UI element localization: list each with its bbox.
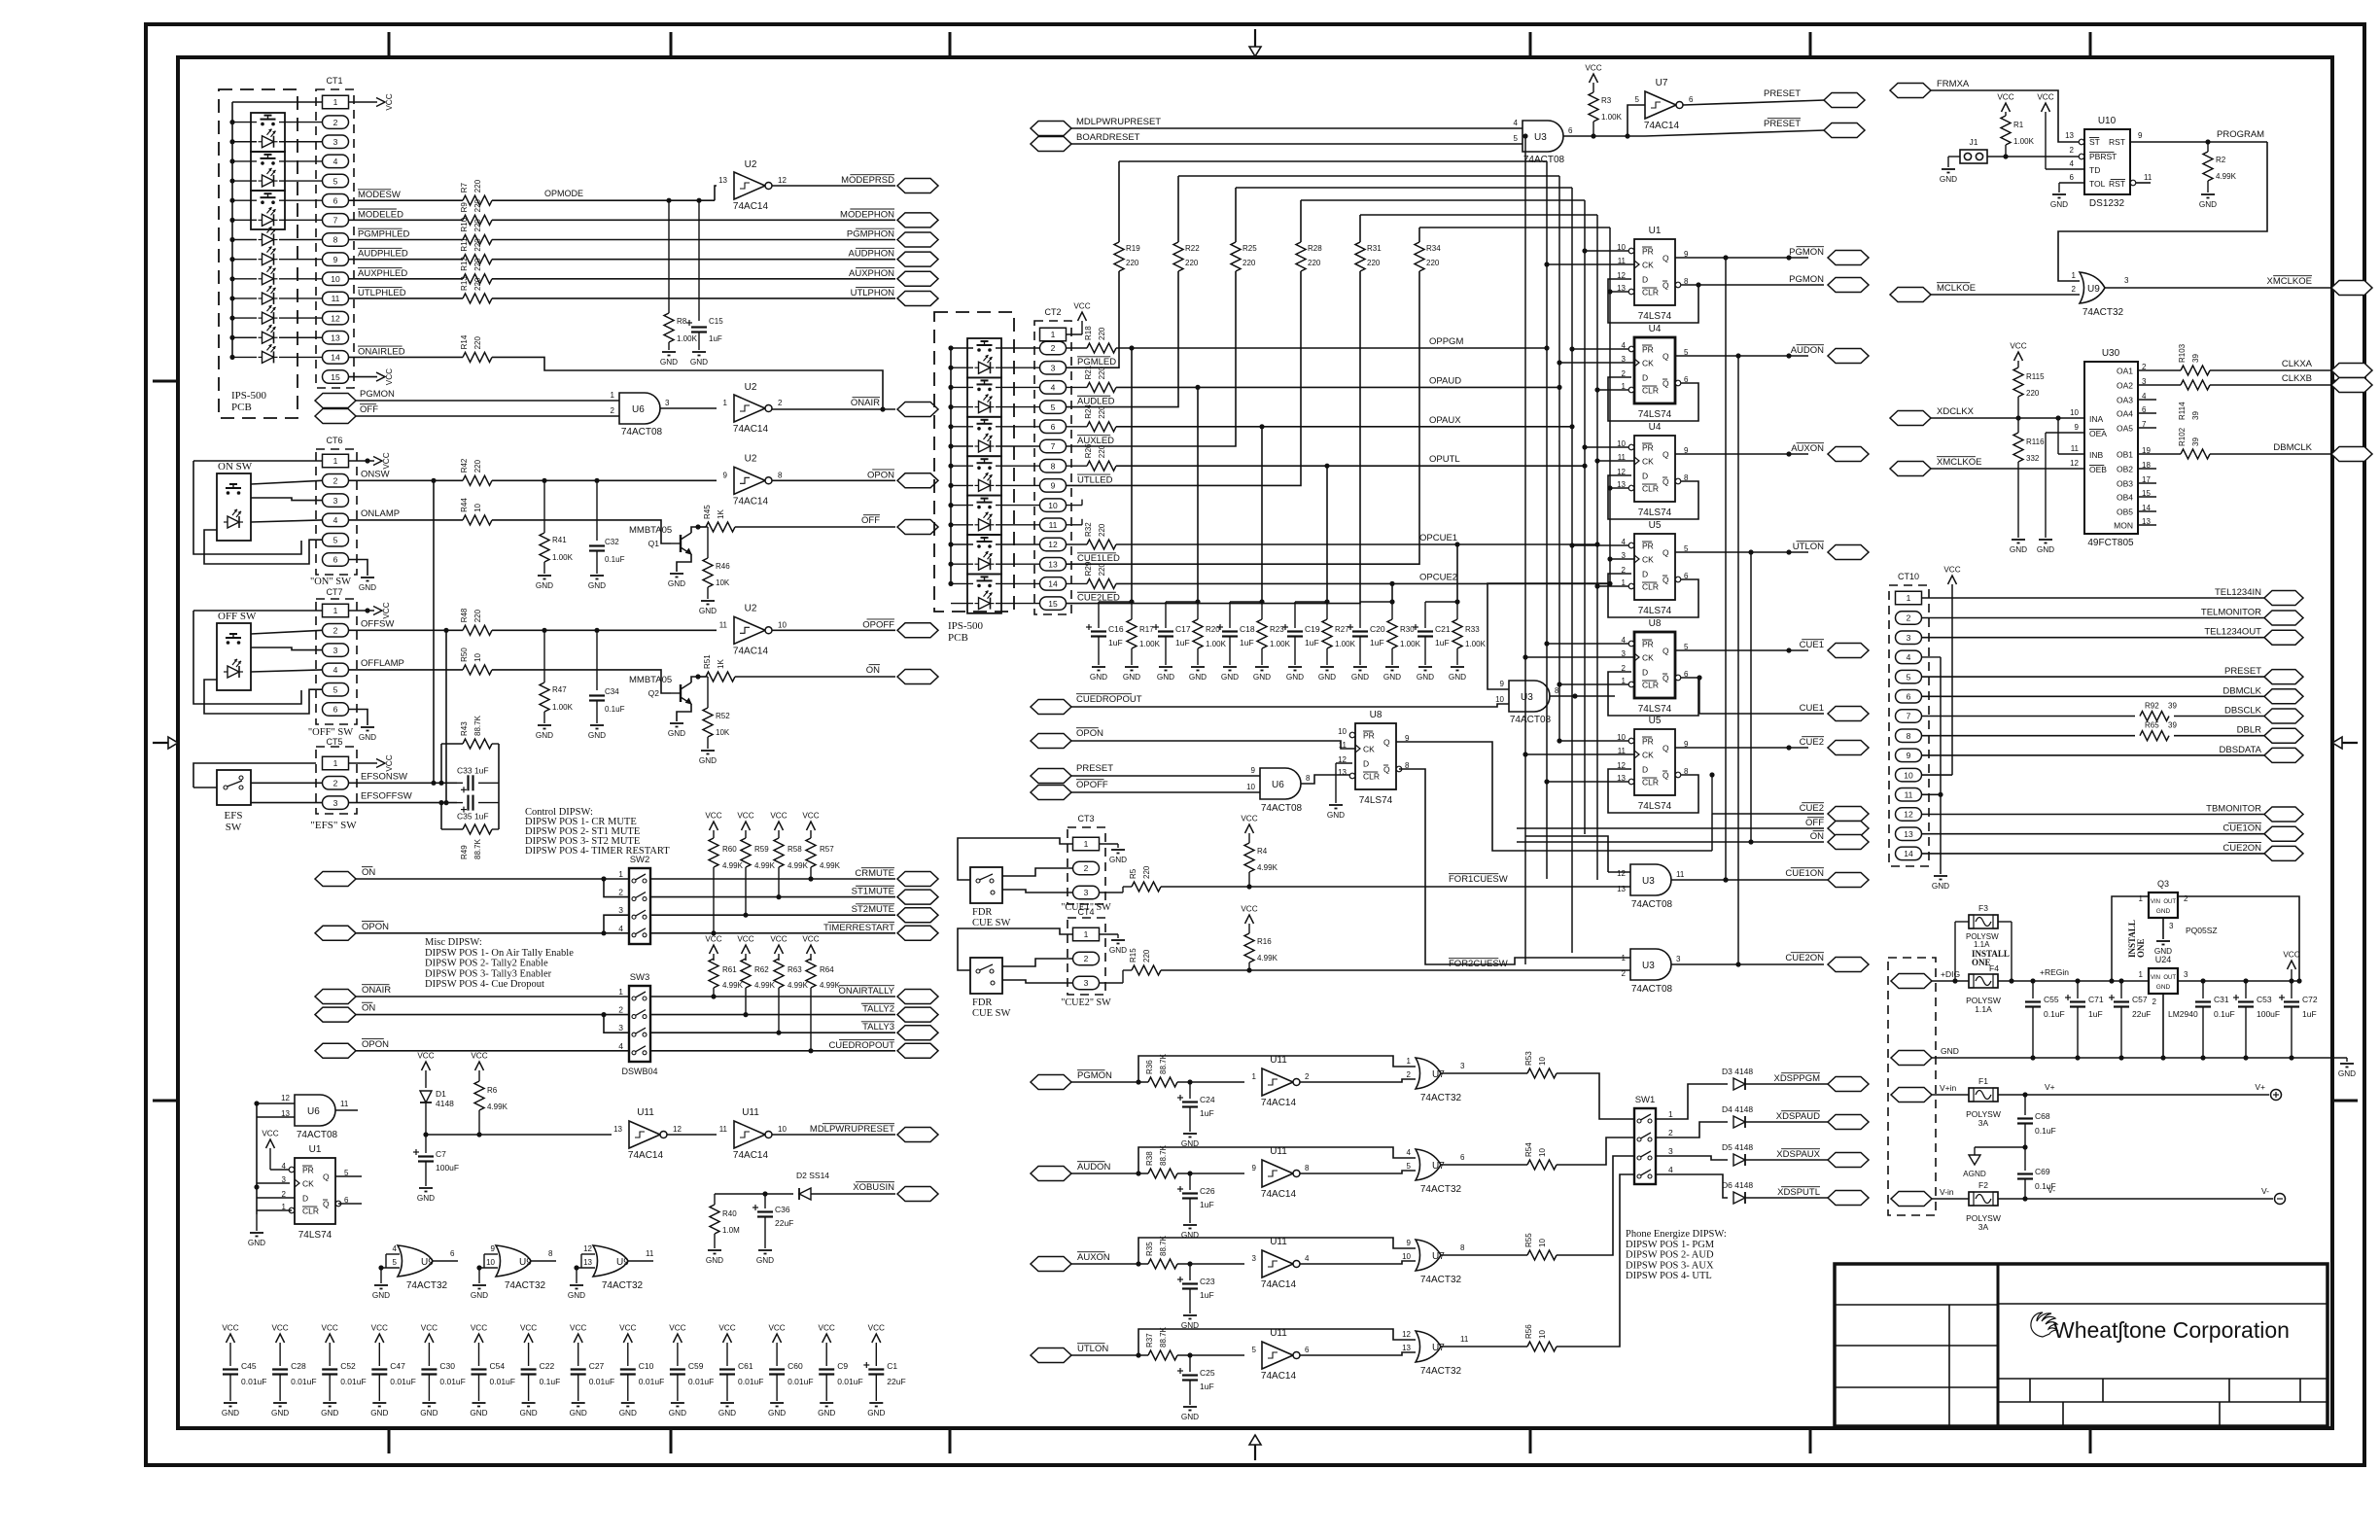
wire LED rail (CT2) bbox=[948, 345, 953, 586]
svg-text:ONAIRTALLY: ONAIRTALLY bbox=[838, 986, 894, 997]
wire bbox=[349, 239, 464, 241]
node OPAUX bbox=[1429, 415, 1461, 426]
svg-text:R2: R2 bbox=[2216, 156, 2226, 164]
wire bbox=[1671, 963, 1824, 965]
wire bbox=[349, 356, 464, 358]
net flag OFF (in) bbox=[315, 404, 378, 424]
svg-text:0.01uF: 0.01uF bbox=[490, 1377, 515, 1386]
svg-text:MODESW: MODESW bbox=[358, 190, 401, 200]
svg-text:U10: U10 bbox=[2098, 116, 2117, 126]
resistor R33 1.00K bbox=[1452, 602, 1487, 665]
capacitor C72 1uF bbox=[2279, 981, 2318, 1058]
svg-text:R5: R5 bbox=[1129, 868, 1137, 879]
svg-text:3: 3 bbox=[665, 399, 670, 407]
wire bbox=[349, 629, 464, 631]
wire U1 Q bbox=[335, 1175, 362, 1177]
capacitor C15 1uF bbox=[686, 200, 723, 350]
svg-text:GND: GND bbox=[699, 607, 717, 615]
svg-text:CUE1: CUE1 bbox=[1800, 640, 1824, 650]
svg-text:1: 1 bbox=[723, 399, 728, 407]
CT2 pin 8 bbox=[1040, 459, 1067, 472]
junction bbox=[423, 1132, 428, 1137]
svg-text:CK: CK bbox=[1642, 261, 1654, 270]
svg-text:13: 13 bbox=[1048, 559, 1058, 569]
wire bbox=[1067, 271, 1420, 564]
resistor R92 39 bbox=[2135, 702, 2177, 721]
pin number bbox=[618, 888, 623, 897]
wire bbox=[951, 484, 1040, 486]
svg-text:0.01uF: 0.01uF bbox=[439, 1377, 465, 1386]
svg-text:6: 6 bbox=[333, 705, 338, 715]
fuse F3 POLYSW 1.1A bbox=[1966, 903, 1999, 949]
wire bbox=[1922, 676, 2266, 678]
svg-text:U5: U5 bbox=[1649, 716, 1662, 726]
svg-text:CUEDROPOUT: CUEDROPOUT bbox=[828, 1040, 894, 1051]
svg-text:1uF: 1uF bbox=[1240, 638, 1254, 647]
CT10 pin 5 bbox=[1896, 670, 1922, 683]
svg-text:MMBTA05: MMBTA05 bbox=[629, 525, 672, 536]
AND gate U6 74ACT08 bbox=[611, 391, 670, 437]
svg-text:GND: GND bbox=[2156, 908, 2171, 915]
svg-text:Misc DIPSW:: Misc DIPSW: bbox=[425, 937, 482, 948]
note EFS SW bbox=[225, 810, 243, 833]
svg-text:R12: R12 bbox=[460, 257, 469, 271]
connector CT7 bbox=[316, 587, 357, 724]
svg-text:74ACT32: 74ACT32 bbox=[505, 1280, 546, 1291]
svg-text:FDR: FDR bbox=[972, 907, 992, 918]
svg-text:R52: R52 bbox=[716, 712, 730, 720]
wire bbox=[627, 1260, 653, 1262]
svg-text:GND: GND bbox=[1090, 673, 1107, 682]
ground (C36) bbox=[756, 1250, 774, 1265]
svg-text:49FCT805: 49FCT805 bbox=[2087, 538, 2134, 548]
svg-text:MON: MON bbox=[2114, 521, 2133, 531]
svg-text:Q: Q bbox=[1662, 379, 1669, 389]
svg-text:C26: C26 bbox=[1200, 1186, 1215, 1196]
svg-text:2: 2 bbox=[1407, 1070, 1412, 1079]
svg-text:UTLON: UTLON bbox=[1793, 542, 1824, 552]
CT1 pin 9 bbox=[323, 253, 349, 266]
wire bbox=[1948, 157, 1960, 167]
wire PR bbox=[1582, 248, 1628, 253]
svg-text:6: 6 bbox=[333, 195, 338, 205]
wire U24 OUT rail bbox=[2178, 978, 2302, 983]
node OPAUD bbox=[1429, 375, 1461, 386]
wire bbox=[349, 259, 464, 261]
junction bbox=[542, 628, 546, 633]
svg-text:332: 332 bbox=[2026, 454, 2040, 463]
svg-text:GND: GND bbox=[568, 1291, 585, 1300]
svg-text:12: 12 bbox=[1617, 869, 1626, 878]
CT7 pin 3 bbox=[323, 644, 349, 657]
capacitor C24 1uF bbox=[1177, 1082, 1215, 1132]
resistor R102 39 bbox=[2156, 427, 2331, 459]
svg-text:U4: U4 bbox=[1649, 324, 1662, 334]
svg-text:CT4: CT4 bbox=[1077, 907, 1094, 917]
svg-text:7: 7 bbox=[1051, 441, 1056, 451]
resistor R65 39 bbox=[2135, 721, 2177, 741]
svg-text:VCC: VCC bbox=[421, 1324, 437, 1333]
wire bbox=[1099, 599, 1135, 604]
wire bbox=[232, 336, 323, 338]
svg-text:1uF: 1uF bbox=[1108, 638, 1123, 647]
ground (CT6) bbox=[359, 577, 376, 592]
power VCC (CT1 pin1) bbox=[376, 93, 394, 110]
svg-text:10: 10 bbox=[1538, 1148, 1547, 1157]
svg-text:Q: Q bbox=[1662, 254, 1669, 263]
wire bbox=[772, 408, 895, 410]
svg-text:2: 2 bbox=[1907, 613, 1911, 623]
wire Q out bbox=[1675, 255, 1808, 260]
svg-text:FOR2CUESW: FOR2CUESW bbox=[1449, 959, 1508, 969]
svg-text:6: 6 bbox=[1460, 1153, 1465, 1162]
capacitor C35 1uF bbox=[457, 795, 499, 822]
wire bbox=[1922, 617, 2266, 619]
ground (CT10) bbox=[1932, 876, 1949, 891]
wire bbox=[1067, 271, 1120, 367]
svg-text:2: 2 bbox=[611, 406, 615, 415]
node FOR2CUESW bbox=[1449, 959, 1508, 969]
resistor R24 220 bbox=[1067, 404, 1117, 432]
svg-text:R27: R27 bbox=[1335, 625, 1349, 634]
svg-text:5: 5 bbox=[1907, 672, 1911, 682]
net flag MDLPWRUPRESET bbox=[810, 1124, 938, 1142]
svg-text:C24: C24 bbox=[1200, 1095, 1215, 1104]
svg-text:12: 12 bbox=[583, 1244, 592, 1253]
svg-text:9: 9 bbox=[2075, 423, 2080, 432]
svg-text:1: 1 bbox=[1252, 1072, 1257, 1081]
svg-text:22uF: 22uF bbox=[2132, 1009, 2151, 1019]
resistor R116 332 bbox=[2013, 418, 2045, 538]
svg-text:D4 4148: D4 4148 bbox=[1722, 1104, 1753, 1114]
ground (R41) bbox=[536, 576, 553, 590]
inverter U11 74AC14 (PGMON) bbox=[1252, 1055, 1310, 1108]
svg-text:D: D bbox=[1642, 668, 1648, 678]
wire bbox=[251, 498, 322, 501]
resistor R16 4.99K bbox=[1244, 933, 1278, 970]
svg-text:C60: C60 bbox=[787, 1361, 803, 1371]
svg-text:OEB: OEB bbox=[2089, 465, 2107, 474]
wire bbox=[349, 479, 464, 481]
resistor R114 39 bbox=[2156, 380, 2331, 420]
svg-text:2: 2 bbox=[1305, 1072, 1310, 1081]
wire bbox=[349, 199, 464, 201]
wire bbox=[1922, 814, 2266, 816]
pin number bbox=[1668, 1128, 1673, 1137]
CT2 pin 3 bbox=[1040, 361, 1067, 374]
svg-text:OPON: OPON bbox=[867, 470, 894, 480]
svg-text:0.01uF: 0.01uF bbox=[688, 1377, 714, 1386]
svg-text:4.99K: 4.99K bbox=[820, 981, 841, 990]
fuse F4 POLYSW 1.1A bbox=[1966, 963, 2001, 1014]
svg-text:74ACT08: 74ACT08 bbox=[1261, 803, 1303, 814]
svg-text:C15: C15 bbox=[709, 317, 723, 326]
ground (C28) bbox=[271, 1403, 289, 1417]
svg-text:3: 3 bbox=[2124, 276, 2129, 285]
svg-text:PGMPHON: PGMPHON bbox=[847, 229, 894, 240]
svg-text:DIPSW POS 2- AUD: DIPSW POS 2- AUD bbox=[1626, 1250, 1714, 1261]
svg-text:GND: GND bbox=[619, 1409, 637, 1417]
wire bbox=[604, 915, 629, 933]
wire Q1 emitter to GND bbox=[677, 554, 691, 572]
svg-text:D: D bbox=[1363, 759, 1369, 769]
svg-text:UTLPHLED: UTLPHLED bbox=[358, 288, 406, 298]
node ONSW bbox=[361, 469, 390, 479]
svg-text:GND: GND bbox=[570, 1409, 587, 1417]
svg-text:R34: R34 bbox=[1426, 244, 1441, 253]
connector CT10 bbox=[1889, 572, 1929, 866]
ground (J1) bbox=[1940, 169, 1957, 184]
svg-text:V+: V+ bbox=[2255, 1082, 2265, 1092]
wire bbox=[951, 543, 1040, 545]
svg-text:U11: U11 bbox=[742, 1107, 759, 1118]
svg-text:13: 13 bbox=[1402, 1344, 1411, 1352]
power VCC (R6) bbox=[471, 1052, 487, 1082]
svg-text:VCC: VCC bbox=[382, 452, 391, 469]
svg-text:4.99K: 4.99K bbox=[820, 861, 841, 870]
svg-text:C55: C55 bbox=[2044, 995, 2059, 1004]
svg-text:GND: GND bbox=[1123, 673, 1140, 682]
svg-text:74AC14: 74AC14 bbox=[733, 646, 769, 656]
switch OFF SW box bbox=[217, 611, 257, 690]
svg-text:Q: Q bbox=[1662, 771, 1669, 781]
ground (U9) bbox=[471, 1285, 488, 1300]
svg-text:15: 15 bbox=[331, 372, 340, 382]
resistor R32 220 bbox=[1067, 522, 1117, 549]
pin number bbox=[618, 1041, 623, 1051]
power VCC (CT2) bbox=[1073, 302, 1090, 322]
inverter U11 74AC14 (AUXON) bbox=[1252, 1237, 1310, 1290]
wire Q3 VIN bbox=[2109, 896, 2149, 984]
net flag ONAIR (SW3 in) bbox=[315, 985, 391, 1004]
junction bbox=[1709, 772, 1714, 777]
svg-text:PGMON: PGMON bbox=[1789, 274, 1824, 285]
svg-text:U30: U30 bbox=[2102, 348, 2120, 359]
svg-text:GND: GND bbox=[1940, 175, 1957, 184]
svg-text:GND: GND bbox=[699, 756, 717, 765]
svg-text:1.00K: 1.00K bbox=[1400, 640, 1421, 648]
node OFFSW bbox=[361, 618, 394, 629]
svg-text:Q2: Q2 bbox=[648, 688, 660, 698]
svg-text:D1: D1 bbox=[436, 1089, 446, 1099]
svg-text:IPS-500: IPS-500 bbox=[231, 390, 267, 402]
switch S1 pushbutton bbox=[261, 116, 276, 126]
net flag ON (out) bbox=[866, 665, 938, 684]
svg-text:8: 8 bbox=[1907, 731, 1911, 741]
border tick top bbox=[388, 32, 391, 57]
svg-text:CT1: CT1 bbox=[326, 76, 342, 86]
svg-text:F2: F2 bbox=[1978, 1180, 1988, 1190]
svg-text:CLR: CLR bbox=[1642, 681, 1659, 690]
svg-text:R49: R49 bbox=[460, 845, 469, 859]
svg-text:0.01uF: 0.01uF bbox=[291, 1377, 316, 1386]
wire bbox=[349, 297, 464, 299]
net flag MDLPWRUPRESET (in) bbox=[1031, 117, 1161, 136]
diode D6 4148 bbox=[1722, 1180, 1753, 1204]
node AUDPHLED bbox=[358, 248, 408, 259]
junction bbox=[762, 1191, 767, 1196]
net flag CUE1 bbox=[1800, 640, 1869, 658]
svg-text:ONAIR: ONAIR bbox=[362, 985, 391, 996]
capacitor C68 0.1uF bbox=[2017, 1095, 2056, 1147]
svg-text:GND: GND bbox=[321, 1409, 338, 1417]
svg-text:4: 4 bbox=[618, 1041, 623, 1051]
svg-text:DS1232: DS1232 bbox=[2089, 198, 2125, 209]
svg-text:74LS74: 74LS74 bbox=[1638, 606, 1672, 616]
resistor R36 88.7K bbox=[1145, 1053, 1177, 1087]
svg-text:88.7K: 88.7K bbox=[1159, 1144, 1168, 1166]
svg-text:CRMUTE: CRMUTE bbox=[855, 868, 894, 879]
svg-text:R30: R30 bbox=[1400, 625, 1415, 634]
svg-text:DIPSW POS 3- AUX: DIPSW POS 3- AUX bbox=[1626, 1260, 1714, 1271]
CT7 pin 2 bbox=[323, 624, 349, 638]
wire CT1 pin1 to VCC bbox=[349, 101, 378, 103]
wire bbox=[349, 219, 464, 221]
svg-text:R32: R32 bbox=[1084, 522, 1093, 537]
junction bbox=[438, 781, 443, 786]
svg-text:4: 4 bbox=[333, 157, 338, 166]
power VCC (R1) bbox=[1997, 93, 2013, 117]
svg-text:4: 4 bbox=[333, 515, 338, 525]
svg-text:13: 13 bbox=[613, 1125, 622, 1134]
svg-text:1.0M: 1.0M bbox=[722, 1226, 740, 1235]
svg-text:DBLR: DBLR bbox=[2237, 725, 2261, 736]
power VCC (U10 TD) bbox=[2037, 93, 2084, 170]
svg-text:V-: V- bbox=[2047, 1185, 2055, 1195]
svg-text:GND: GND bbox=[417, 1194, 435, 1203]
wire Q2 collector bbox=[691, 677, 698, 682]
LED D-s3 bbox=[259, 207, 278, 226]
svg-text:R1: R1 bbox=[2013, 121, 2024, 129]
net flag V+in bbox=[1891, 1083, 1957, 1102]
fuse F2 POLYSW 3A bbox=[1932, 1180, 2001, 1232]
net flag AUDPHON bbox=[848, 248, 938, 266]
wire U24 GND bbox=[2162, 994, 2164, 1058]
svg-text:GND: GND bbox=[1189, 673, 1207, 682]
svg-text:INA: INA bbox=[2089, 414, 2104, 424]
svg-text:OPAUX: OPAUX bbox=[1429, 415, 1461, 426]
svg-text:XMCLKOE: XMCLKOE bbox=[1937, 457, 1981, 468]
wire bbox=[1922, 597, 2266, 599]
node CUE1LED bbox=[1077, 553, 1120, 564]
svg-text:5: 5 bbox=[1252, 1346, 1257, 1354]
svg-text:74ACT08: 74ACT08 bbox=[1631, 899, 1673, 910]
wire bbox=[650, 878, 895, 880]
wire bbox=[1748, 549, 1753, 844]
IPS-500 PCB dashed box (CT2) bbox=[934, 312, 1014, 644]
net flag UTLON (in) bbox=[1031, 1344, 1108, 1363]
wire EFSOFFSW bbox=[349, 802, 458, 804]
wire EFSOFFSW up to OFFSW bbox=[443, 630, 448, 805]
wire U8c Qbar bbox=[1399, 769, 1513, 964]
CT6 pin 2 bbox=[323, 474, 349, 488]
wire bypass bbox=[1138, 1056, 1416, 1082]
svg-text:ONE: ONE bbox=[2136, 938, 2146, 958]
inverter U2d 74AC14 bbox=[719, 603, 787, 656]
wire Qbar feedback bbox=[1608, 672, 1698, 716]
power VCC (R61) bbox=[705, 935, 721, 962]
ground (U8c) bbox=[1327, 763, 1345, 820]
svg-text:C20: C20 bbox=[1370, 624, 1385, 634]
power VCC (R60) bbox=[705, 812, 721, 839]
LED (CT1 pin 8) bbox=[259, 227, 278, 246]
CT1 pin 15 bbox=[323, 370, 349, 384]
wire bbox=[193, 461, 301, 554]
power VCC (C30) bbox=[421, 1324, 437, 1367]
svg-text:R31: R31 bbox=[1367, 244, 1382, 253]
power VCC (D1) bbox=[417, 1052, 434, 1089]
wire bbox=[1656, 1174, 1728, 1198]
wire bbox=[2143, 980, 2149, 982]
wire CT10 pin10 to VCC bbox=[1922, 774, 1953, 776]
svg-text:1uF: 1uF bbox=[1370, 638, 1384, 647]
wire bbox=[711, 988, 716, 999]
svg-text:C9: C9 bbox=[837, 1361, 848, 1371]
wire OEA to GND bbox=[2046, 433, 2084, 538]
wire bbox=[232, 278, 323, 280]
ground (C47) bbox=[370, 1403, 388, 1417]
svg-text:10: 10 bbox=[1538, 1239, 1547, 1247]
svg-text:R22: R22 bbox=[1185, 244, 1200, 253]
ground (U1) bbox=[248, 1214, 265, 1247]
svg-text:C45: C45 bbox=[241, 1361, 257, 1371]
node OPUTL bbox=[1429, 454, 1460, 465]
wire bbox=[660, 407, 717, 409]
svg-text:TEL1234OUT: TEL1234OUT bbox=[2204, 627, 2261, 638]
note ON SW bbox=[310, 577, 351, 587]
svg-text:R55: R55 bbox=[1524, 1233, 1533, 1247]
svg-text:GND: GND bbox=[2010, 545, 2027, 554]
svg-text:5: 5 bbox=[333, 176, 338, 186]
wire CT3 pin1 GND bbox=[1100, 844, 1119, 848]
svg-text:IPS-500: IPS-500 bbox=[948, 620, 984, 632]
svg-text:0.01uF: 0.01uF bbox=[390, 1377, 415, 1386]
svg-text:74AC14: 74AC14 bbox=[733, 496, 769, 507]
wire Qbar feedback bbox=[1608, 279, 1698, 323]
svg-text:OFF SW: OFF SW bbox=[218, 611, 257, 622]
wire bbox=[204, 680, 322, 714]
svg-text:100uF: 100uF bbox=[436, 1163, 459, 1172]
svg-text:220: 220 bbox=[1308, 259, 1321, 267]
wire bbox=[426, 1134, 612, 1136]
svg-text:GND: GND bbox=[2156, 984, 2171, 991]
resistor R40 1.0M bbox=[710, 1194, 740, 1248]
svg-text:D: D bbox=[302, 1194, 308, 1204]
svg-text:9: 9 bbox=[2138, 131, 2143, 140]
wire bbox=[492, 219, 895, 221]
transistor Q1 MMBTA05 bbox=[629, 525, 691, 554]
net flag MODEPRSD bbox=[841, 175, 938, 193]
wire bus vertical bbox=[1571, 188, 1573, 953]
net flag XDCLKX bbox=[1890, 406, 1975, 426]
wire bbox=[1745, 1083, 1828, 1085]
wire bbox=[1627, 105, 1645, 136]
svg-text:CUE2ON: CUE2ON bbox=[2222, 843, 2261, 854]
svg-text:2: 2 bbox=[333, 118, 338, 127]
net flag XDSPUTL bbox=[1777, 1187, 1869, 1206]
node ONAIRLED bbox=[358, 346, 405, 357]
svg-text:R57: R57 bbox=[820, 845, 834, 854]
svg-text:GND: GND bbox=[1318, 673, 1336, 682]
svg-text:74AC14: 74AC14 bbox=[733, 201, 769, 212]
svg-text:4: 4 bbox=[1407, 1148, 1412, 1157]
svg-text:PCB: PCB bbox=[948, 632, 968, 644]
ground (C1) bbox=[867, 1403, 885, 1417]
wire AGND bbox=[1975, 1147, 2025, 1155]
svg-text:CLR: CLR bbox=[1642, 778, 1659, 787]
svg-text:C25: C25 bbox=[1200, 1368, 1215, 1378]
svg-text:R51: R51 bbox=[703, 654, 712, 669]
